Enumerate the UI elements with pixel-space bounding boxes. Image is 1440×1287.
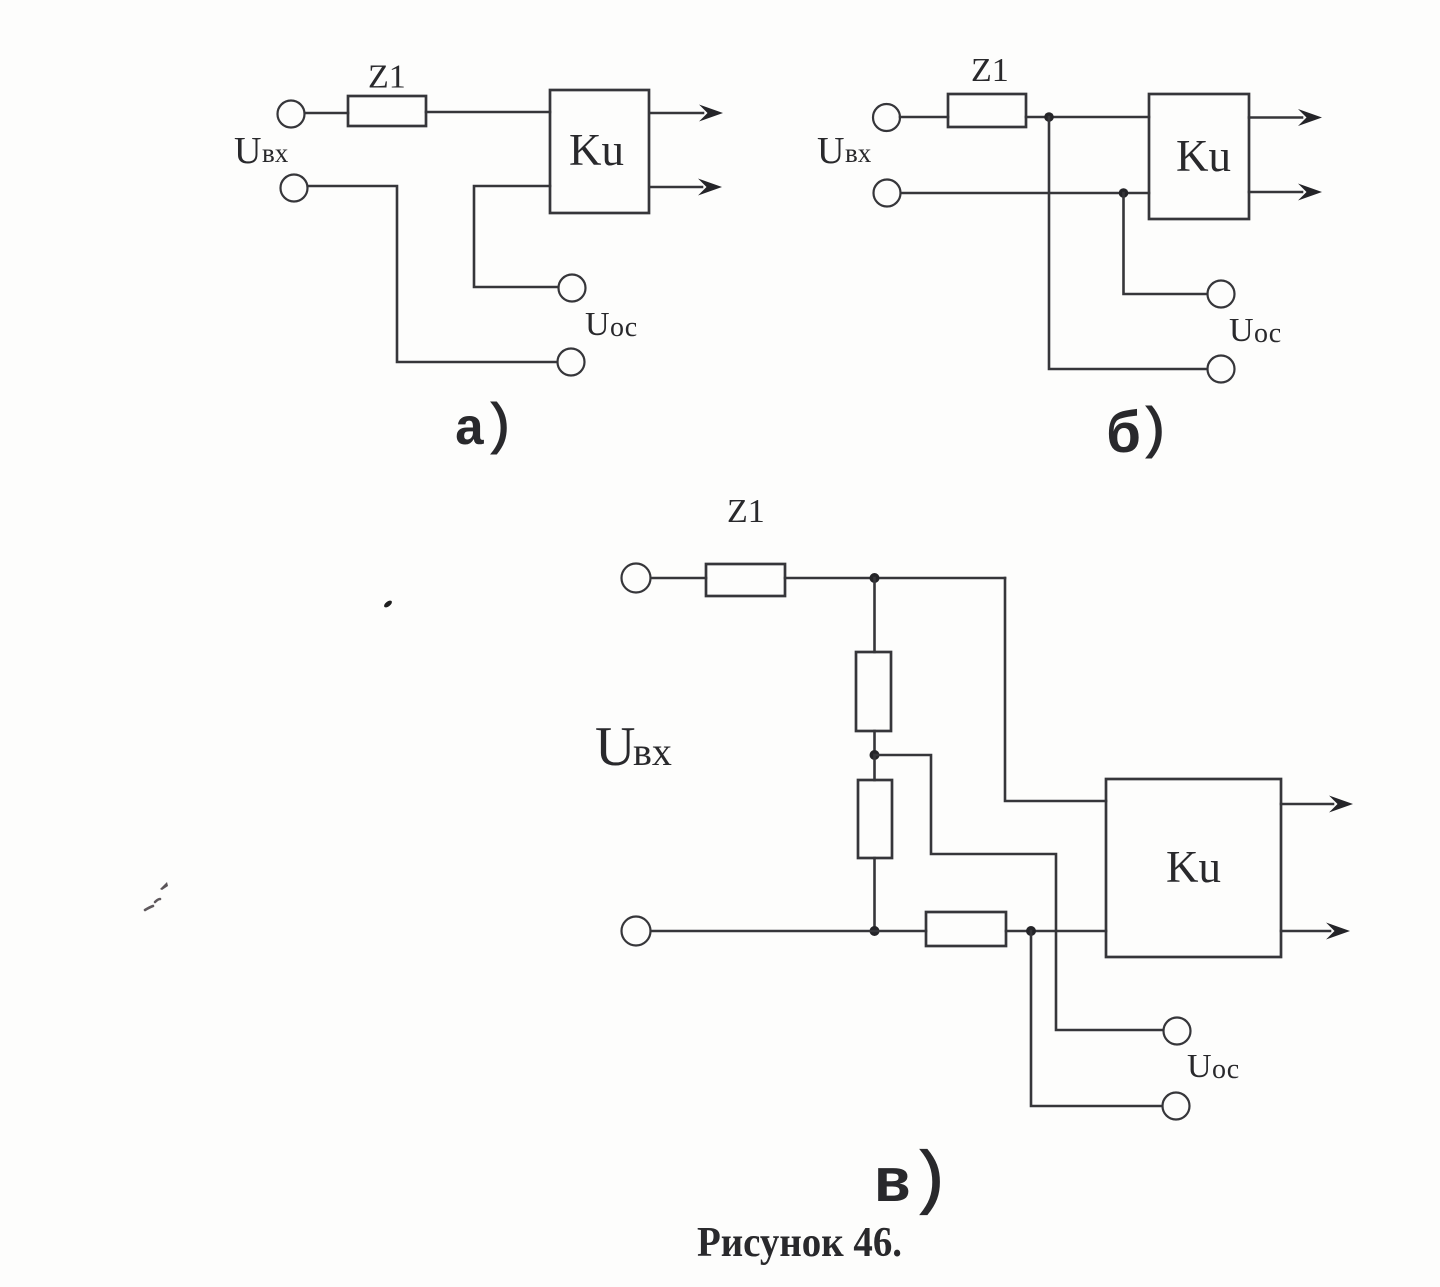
arrowhead output 2 (circuit a): [698, 179, 722, 196]
terminal: Uvx upper input (circuit a): [278, 101, 305, 128]
svg-text:вх: вх: [633, 729, 672, 774]
svg-text:Z1: Z1: [971, 52, 1009, 89]
arrowhead output 1 (circuit b): [1298, 109, 1322, 126]
wire: output 1 (circuit a): [650, 112, 703, 115]
svg-text:вх: вх: [845, 138, 872, 168]
resistor Z1 (circuit b): [948, 94, 1026, 127]
wire: Z1 to right corner (circuit v): [785, 577, 1005, 580]
stray pen mark 1: [383, 599, 393, 608]
terminal: Uoc upper (circuit v): [1164, 1018, 1191, 1045]
wire: junction down to upper Uoc terminal (circuit b): [1124, 193, 1208, 294]
terminal: Uvx lower input (circuit a): [281, 175, 308, 202]
svg-text:ос: ос: [610, 312, 637, 343]
wire: output 2 (circuit v): [1281, 930, 1330, 933]
junction node after Z1 (circuit b): [1044, 112, 1054, 122]
svg-text:): ): [482, 396, 516, 460]
junction node D (circuit v): [1026, 926, 1036, 936]
junction node C (circuit v): [870, 926, 880, 936]
terminal: Uvx lower input (circuit b): [874, 180, 901, 207]
resistor R2 vertical (circuit v): [858, 780, 892, 858]
wire: input to Z1 (circuit a): [305, 112, 348, 115]
svg-text:U: U: [585, 306, 610, 343]
resistor Z1 (circuit v): [706, 564, 785, 596]
arrowhead output 2 (circuit b): [1298, 184, 1322, 201]
terminal: Uoc lower (circuit v): [1163, 1093, 1190, 1120]
junction node A (circuit v): [870, 573, 880, 583]
svg-text:U: U: [234, 130, 261, 172]
arrowhead output 1 (circuit a): [699, 105, 723, 122]
wire: output 1 (circuit v): [1281, 803, 1333, 806]
terminal: Uvx upper input (circuit b): [873, 104, 900, 131]
amplifier block Ku U2 (circuit b): [1149, 94, 1249, 219]
amplifier block Ku U3 (circuit v): [1106, 779, 1281, 957]
terminal: Uoc lower (circuit a): [558, 349, 585, 376]
amplifier block Ku U1 (circuit a): [550, 90, 649, 213]
wire: lower input to Ku (circuit b): [901, 192, 1149, 195]
wire: lower input to lower Uoc terminal (circuit a): [308, 186, 556, 362]
wire: lower input to R3 (circuit v): [651, 930, 926, 933]
wire: output 2 (circuit a): [650, 186, 702, 189]
resistor R3 horizontal (circuit v): [926, 912, 1006, 946]
wire: input to Z1 (circuit v): [651, 577, 706, 580]
wire: Z1 to Ku (circuit b): [1026, 116, 1149, 119]
wire: R3 to Ku lower input (circuit v): [1006, 930, 1106, 933]
svg-text:в: в: [874, 1149, 911, 1220]
svg-text:вх: вх: [262, 138, 289, 168]
wire: output 1 (circuit b): [1249, 116, 1302, 119]
wire: junction B down to R2 (circuit v): [873, 755, 876, 780]
junction node B (circuit v): [870, 750, 880, 760]
stray pen mark 2 upper wedge: [160, 882, 168, 890]
svg-text:): ): [1137, 400, 1171, 464]
stray pen mark 2 lower squiggle: [145, 899, 160, 910]
svg-text:): ): [909, 1143, 951, 1222]
svg-text:U: U: [817, 130, 844, 172]
terminal: Uoc upper (circuit b): [1208, 281, 1235, 308]
terminal: Uvx upper input (circuit v): [622, 564, 651, 593]
wire: junction D down to lower Uoc terminal (circuit v): [1031, 931, 1162, 1106]
terminal: Uoc lower (circuit b): [1208, 356, 1235, 383]
wire: input to Z1 (circuit b): [900, 116, 948, 119]
svg-text:б: б: [1106, 405, 1141, 470]
wire: junction A down to resistor (circuit v): [873, 578, 876, 652]
svg-text:Ku: Ku: [1166, 842, 1221, 892]
svg-text:Ku: Ku: [569, 125, 624, 175]
wire: Z1 to Ku (circuit a): [426, 111, 550, 114]
svg-text:Z1: Z1: [368, 59, 406, 96]
svg-text:Z1: Z1: [727, 493, 765, 530]
terminal: Uvx lower input (circuit v): [622, 917, 651, 946]
svg-text:Рисунок 46.: Рисунок 46.: [697, 1220, 902, 1266]
svg-text:ос: ос: [1212, 1054, 1239, 1085]
terminal: Uoc upper (circuit a): [559, 275, 586, 302]
svg-text:U: U: [595, 716, 635, 778]
wire: R1 to junction B (circuit v): [873, 731, 876, 755]
resistor R1 vertical (circuit v): [856, 652, 891, 731]
junction node on lower input (circuit b): [1119, 188, 1129, 198]
wire: corner down to Ku top input (circuit v): [1005, 578, 1106, 801]
svg-text:а: а: [454, 401, 485, 460]
wire: R2 down to junction C (circuit v): [873, 858, 876, 931]
wire: junction B to upper Uoc terminal (circuit v): [875, 755, 1164, 1030]
wire: feedback from Ku lower input to upper Uoc terminal (circuit a): [474, 186, 557, 287]
arrowhead output 1 (circuit v): [1329, 796, 1353, 813]
svg-text:Ku: Ku: [1176, 131, 1231, 181]
svg-text:ос: ос: [1254, 318, 1281, 349]
svg-text:U: U: [1187, 1048, 1212, 1085]
resistor Z1 (circuit a): [348, 96, 426, 126]
arrowhead output 2 (circuit v): [1326, 923, 1350, 940]
wire: output 2 (circuit b): [1249, 191, 1302, 194]
wire: junction down to lower Uoc terminal (circuit b): [1049, 117, 1207, 369]
svg-text:U: U: [1229, 312, 1254, 349]
